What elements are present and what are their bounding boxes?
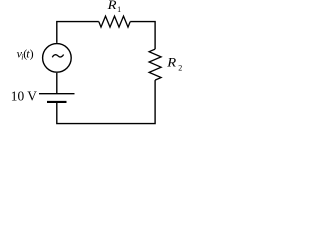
battery negative short plate bbox=[47, 101, 67, 103]
wire: battery long plate to circle bottom bbox=[56, 73, 58, 94]
sine symbol ~ inside source bbox=[52, 55, 63, 58]
svg-text:R: R bbox=[107, 0, 118, 12]
svg-text:): ) bbox=[30, 46, 34, 60]
wire: R2 bottom lead, bottom wire, up to battery short plate bbox=[57, 80, 155, 124]
wire: circle top to top-left corner to R1 left lead bbox=[57, 22, 99, 43]
wire: R1 right lead to top-right corner to R2 top lead bbox=[130, 22, 155, 49]
resistor R1 bbox=[99, 16, 130, 27]
battery positive long plate bbox=[39, 93, 75, 95]
svg-text:10 V: 10 V bbox=[11, 88, 37, 103]
ac voltage source vs (circle) bbox=[43, 44, 72, 73]
svg-text:R: R bbox=[166, 55, 177, 69]
svg-text:1: 1 bbox=[117, 5, 121, 14]
resistor R2 bbox=[149, 49, 161, 80]
svg-text:2: 2 bbox=[178, 63, 182, 72]
